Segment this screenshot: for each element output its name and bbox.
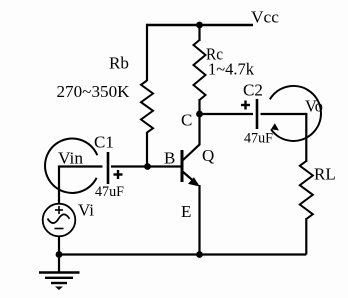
transistor Q emitter lead xyxy=(183,172,198,185)
resistor Rb xyxy=(141,81,153,133)
junction dot: node B xyxy=(144,163,151,170)
wire: emitter down to bottom rail xyxy=(198,185,200,255)
resistor RL xyxy=(300,161,313,219)
svg-text:RL: RL xyxy=(314,165,336,184)
svg-text:1~4.7k: 1~4.7k xyxy=(208,60,254,79)
Vin loop arrow (circulating arc) xyxy=(45,139,97,193)
wire: output branch down to RL xyxy=(305,113,307,162)
junction dot: emitter node on bottom rail xyxy=(196,251,203,258)
wire: bottom rail xyxy=(59,253,306,255)
transistor Q collector lead xyxy=(183,114,200,161)
ground xyxy=(39,255,80,291)
svg-text:Vin: Vin xyxy=(58,149,84,168)
wire: Rb top lead (from top rail down) xyxy=(146,24,148,81)
source Vi circle xyxy=(43,204,76,237)
svg-text:Vi: Vi xyxy=(78,201,94,220)
transistor Q base bar xyxy=(181,150,184,182)
wire: Rb bottom lead (down to base node) xyxy=(146,132,148,167)
arrowhead of Vo loop xyxy=(271,123,279,130)
wire: Vcc top rail xyxy=(147,24,254,26)
wire: node C to C2 left plate xyxy=(200,113,254,115)
wire: Rc top lead xyxy=(198,25,200,41)
wire: C2 to output branch xyxy=(261,113,307,115)
source Vi plus mark xyxy=(55,206,63,214)
svg-text:E: E xyxy=(181,202,191,221)
source Vi sine wave xyxy=(48,214,70,223)
svg-text:270~350K: 270~350K xyxy=(57,82,131,101)
svg-text:47uF: 47uF xyxy=(244,131,273,147)
svg-text:Rb: Rb xyxy=(109,54,129,73)
resistor Rc xyxy=(194,40,206,100)
wire: C1 to transistor base xyxy=(111,165,181,167)
polarity + of C1 xyxy=(114,170,123,179)
junction dot: node C xyxy=(196,111,203,118)
svg-text:Vo: Vo xyxy=(305,97,323,116)
source Vi minus mark xyxy=(55,228,64,230)
wire: input corner to C1 (base wire left segment) xyxy=(59,165,103,167)
svg-text:47uF: 47uF xyxy=(95,184,124,200)
wire: input corner down to source Vi xyxy=(58,166,60,205)
svg-text:B: B xyxy=(164,149,175,168)
wire: RL bottom lead xyxy=(305,218,307,255)
svg-text:C1: C1 xyxy=(94,133,114,152)
svg-text:Q: Q xyxy=(202,146,214,165)
wire: source Vi to ground node xyxy=(58,236,60,255)
svg-text:C2: C2 xyxy=(243,81,263,100)
svg-text:Vcc: Vcc xyxy=(251,8,279,27)
wire: Rc bottom lead to node C xyxy=(198,99,200,114)
Vo loop arrow (circulating arc) xyxy=(270,86,321,141)
capacitor C2 plate xyxy=(256,99,259,129)
svg-text:C: C xyxy=(181,111,192,130)
junction dot: ground node xyxy=(56,251,63,258)
capacitor C1 plate xyxy=(107,152,110,184)
emitter arrowhead xyxy=(188,177,200,186)
polarity + of C2 xyxy=(241,101,250,110)
junction dot: Vcc node xyxy=(196,22,203,29)
